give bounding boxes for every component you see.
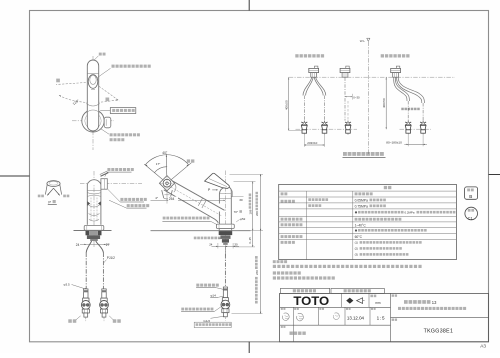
svg-text:W.L: W.L	[360, 39, 365, 43]
svg-text:C1: C1	[468, 216, 473, 220]
svg-text:(1): (1)	[355, 241, 358, 245]
svg-text:0.75MPa: 0.75MPa	[355, 204, 368, 208]
svg-text:φ3.5: φ3.5	[64, 282, 70, 286]
svg-text:60°C: 60°C	[355, 235, 363, 239]
svg-text:24: 24	[209, 243, 213, 247]
svg-text:260: 260	[255, 270, 259, 275]
svg-text:TKGG38E1: TKGG38E1	[424, 329, 454, 335]
svg-text:254: 254	[169, 197, 175, 201]
svg-text:P: P	[48, 199, 51, 204]
svg-text:400±50: 400±50	[285, 100, 289, 110]
svg-text:0.2MPa: 0.2MPa	[405, 210, 415, 214]
svg-text:A3: A3	[480, 344, 486, 349]
svg-text:(2): (2)	[355, 247, 358, 251]
svg-text:φ52: φ52	[240, 217, 246, 221]
svg-text:80~180±10: 80~180±10	[386, 141, 402, 145]
svg-text:40°: 40°	[162, 151, 168, 155]
svg-text:17°: 17°	[156, 162, 161, 166]
svg-text:PJ1/2: PJ1/2	[107, 256, 115, 260]
svg-text:27: 27	[106, 243, 110, 247]
svg-text:24: 24	[76, 243, 80, 247]
svg-text:TOTO: TOTO	[293, 295, 329, 308]
svg-text:188: 188	[248, 209, 252, 214]
svg-text:30: 30	[234, 243, 238, 247]
svg-text:φ14: φ14	[210, 294, 216, 298]
svg-text:0.05MPa: 0.05MPa	[355, 198, 368, 202]
svg-text:203±10: 203±10	[307, 141, 317, 145]
svg-text:0~30: 0~30	[353, 95, 360, 99]
svg-text:400±50: 400±50	[382, 98, 386, 108]
svg-text:1~40°C: 1~40°C	[355, 223, 367, 227]
svg-text:70°: 70°	[234, 210, 238, 214]
svg-text:13: 13	[432, 300, 437, 305]
svg-text:mm: mm	[375, 301, 381, 305]
svg-text:200: 200	[255, 211, 259, 216]
svg-text:30: 30	[239, 198, 243, 202]
svg-text:1:5: 1:5	[377, 316, 386, 321]
svg-text:0~35: 0~35	[248, 237, 252, 244]
svg-text:B: B	[469, 194, 472, 199]
svg-text:13.12.04: 13.12.04	[347, 316, 365, 321]
svg-text:(3): (3)	[355, 253, 358, 257]
